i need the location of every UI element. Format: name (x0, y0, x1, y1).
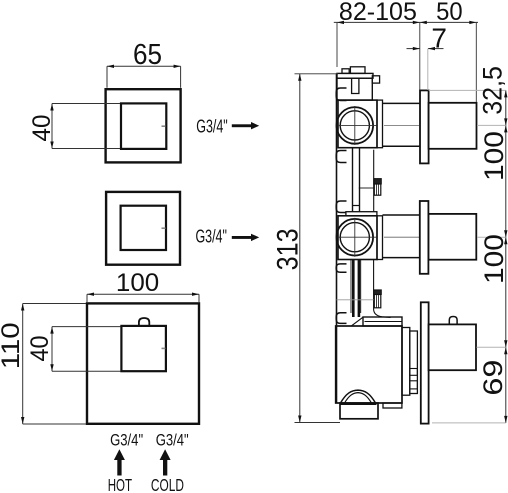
housing right wall upper (373, 150, 375, 212)
handle 3 (429, 324, 476, 370)
svg-text:313: 313 (271, 228, 304, 270)
valve 1 body (338, 100, 377, 148)
valve 2 port circle inner (340, 223, 369, 252)
svg-text:100: 100 (116, 269, 159, 297)
arrow right 1 (232, 122, 259, 129)
valve 1 tube to wall (383, 102, 421, 104)
thermostat body (336, 326, 402, 403)
bottom right step (383, 403, 402, 408)
big square plate outer (87, 303, 199, 423)
dimension 40 (plate 1) (52, 104, 120, 149)
bolt 1 (374, 179, 382, 184)
valve 1 flange (377, 100, 383, 148)
svg-text:100: 100 (479, 131, 508, 181)
port strip A (402, 328, 410, 396)
square trim plate 2 outer (106, 192, 180, 265)
square trim plate 1 outer (106, 89, 181, 162)
svg-text:69: 69 (478, 360, 508, 396)
valve 1 port circle inner (340, 111, 369, 140)
ext line plate front gray (427, 49, 429, 90)
stem guide lines (350, 260, 352, 313)
chain arrows (504, 90, 507, 97)
square trim plate 1 inner (121, 103, 166, 148)
cap band (365, 321, 403, 323)
outlet arch inner (345, 393, 372, 403)
dimension 82-105 / 50 top line (334, 21, 478, 23)
valve 1 port circle outer (337, 107, 374, 144)
wall plate 3 (421, 302, 429, 423)
cap stem slot (352, 78, 359, 93)
cap diagonal (352, 317, 364, 326)
mounting hook 3 (336, 201, 346, 213)
svg-text:100: 100 (479, 234, 508, 284)
bottom outlet (340, 403, 378, 419)
dimension 7 (407, 48, 420, 50)
up arrow COLD (160, 449, 171, 475)
svg-text:G3/4": G3/4" (110, 430, 143, 449)
dimension 40 (handle square) (52, 327, 121, 372)
handle 1 (429, 103, 477, 149)
notch plate 2 (162, 227, 166, 229)
wall plate 2 (420, 201, 429, 274)
right chain dimension line (505, 90, 507, 423)
cap body (337, 78, 372, 100)
handle 2 (428, 214, 476, 260)
ext line wall face (419, 22, 421, 90)
svg-text:82-105: 82-105 (339, 0, 417, 26)
svg-text:7: 7 (431, 23, 447, 54)
mounting hook 4 (336, 264, 346, 272)
top cap plate (337, 73, 373, 78)
svg-text:40: 40 (28, 115, 56, 142)
svg-text:110: 110 (0, 322, 25, 369)
ext bottom (432, 422, 506, 424)
dimension 110 (23, 304, 86, 425)
svg-text:G3/4": G3/4" (195, 226, 227, 247)
valve 1 crosshair (338, 124, 377, 126)
dimension 313 (299, 74, 301, 423)
top tab wide (350, 67, 365, 74)
svg-text:COLD: COLD (151, 475, 184, 493)
ext port1 axis (477, 124, 506, 126)
stem between valves (352, 148, 354, 212)
ext plate1 top (429, 89, 506, 91)
thermostat handle square (121, 326, 165, 371)
outlet arch outer (341, 390, 376, 403)
handle 3 knob (449, 317, 457, 325)
wall plate 1 (420, 90, 429, 163)
ext port2 axis (477, 236, 506, 238)
valve body back edge (336, 73, 338, 403)
joint line (337, 299, 374, 301)
valve 2 crosshair (338, 236, 377, 238)
handle knob front (139, 318, 149, 325)
bolt 2 (374, 290, 382, 295)
ext handle3 axis (477, 346, 506, 348)
svg-text:G3/4": G3/4" (156, 430, 189, 449)
arrow right 2 (232, 234, 259, 241)
mounting hook 2 (336, 151, 346, 163)
notch big plate (162, 347, 166, 349)
svg-text:32,5: 32,5 (478, 66, 508, 115)
valve 2 body (338, 216, 377, 260)
top tab small (342, 69, 349, 74)
valve 2 tube to wall (383, 214, 420, 216)
port strip B (410, 331, 418, 394)
svg-text:65: 65 (133, 39, 162, 71)
valve 2 flange (377, 216, 383, 260)
up arrow HOT (114, 449, 125, 475)
thermostat cap (363, 317, 402, 326)
dimension 65 (107, 66, 181, 88)
ext line body back (336, 22, 338, 67)
mounting hook 1 (336, 88, 346, 100)
svg-text:40: 40 (26, 336, 54, 362)
valve 2 top plate (346, 212, 377, 216)
square trim plate 2 inner (121, 206, 166, 250)
ext line handle front (475, 22, 477, 102)
port detail 1 (410, 369, 418, 376)
top right lug (372, 76, 379, 83)
notch plate 1 (162, 125, 166, 127)
port detail 2 (410, 381, 418, 389)
housing right wall lower (374, 260, 391, 318)
dimension 100 (front) (87, 294, 199, 302)
svg-text:G3/4": G3/4" (196, 116, 228, 137)
valve 2 port circle outer (337, 219, 374, 256)
mounting hook 5 (336, 313, 346, 324)
svg-text:HOT: HOT (108, 475, 133, 493)
stem to thermostat (352, 260, 355, 318)
